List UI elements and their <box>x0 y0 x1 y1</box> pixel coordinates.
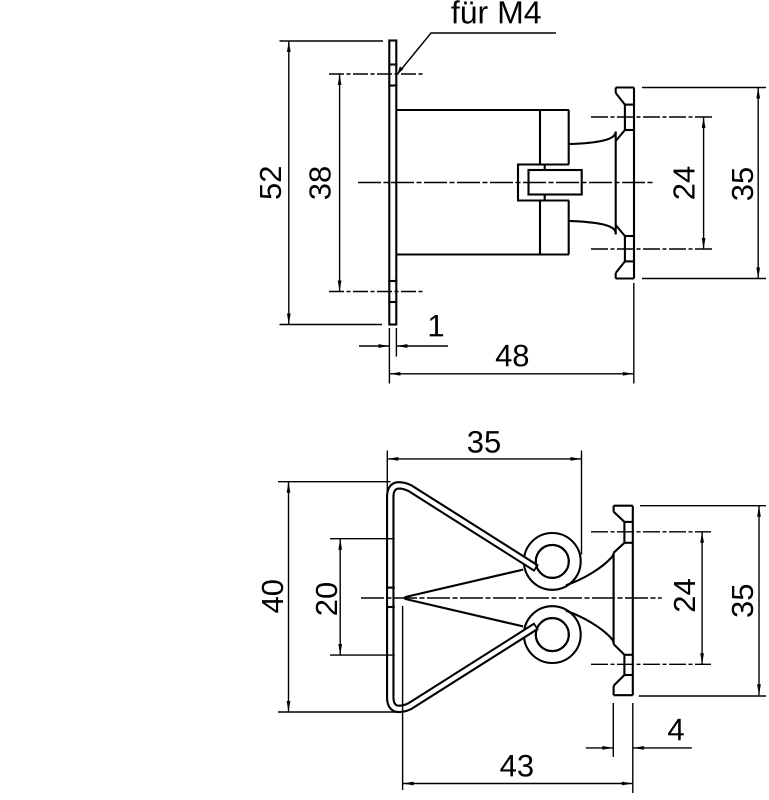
dim 52 extension bottom <box>280 324 383 326</box>
band ticks near apex <box>386 587 395 589</box>
dim 1 extension right <box>395 328 397 357</box>
svg-text:20: 20 <box>309 582 344 616</box>
flange face segments <box>613 506 615 512</box>
dim 35 extension top (top view) <box>642 87 766 89</box>
dim 1 left arrow line <box>359 345 389 347</box>
dim 4 right arrow line <box>633 747 692 749</box>
upper hole countersink <box>614 512 625 522</box>
svg-text:24: 24 <box>667 166 702 200</box>
svg-text:52: 52 <box>253 166 288 200</box>
exit curve upper <box>566 554 614 586</box>
flange hole axis upper (bottom view) <box>591 531 711 533</box>
dim 40 line <box>288 482 290 712</box>
plate hole axis upper <box>329 73 425 75</box>
clamp jaw verticals <box>544 165 546 171</box>
body right edge upper segment <box>539 110 541 165</box>
svg-text:1: 1 <box>427 308 444 343</box>
flange right edge <box>632 506 634 696</box>
leader fuer M4 <box>398 33 557 74</box>
dim 20 extension top <box>330 538 395 540</box>
mounting plate (side view, 1mm) <box>389 41 396 325</box>
dim 52 line <box>288 41 290 325</box>
dim 20 line <box>339 539 341 655</box>
dim 35 right line (bottom view) <box>758 506 760 696</box>
dim 1 extension left / 48 extension left <box>388 328 390 384</box>
flange top edge <box>616 86 634 88</box>
bottom view centerline <box>361 597 662 599</box>
dim 1 right arrow line <box>396 345 448 347</box>
dim 48 line <box>389 373 633 375</box>
svg-text:35: 35 <box>467 424 502 459</box>
spring clip band: thick black then white core <box>390 485 536 708</box>
svg-text:43: 43 <box>500 748 535 783</box>
svg-text:38: 38 <box>303 166 338 200</box>
dim 43 extension left <box>402 606 404 790</box>
dim 35 top extension right <box>581 451 583 555</box>
riser right edge lower <box>568 201 570 255</box>
plate hole tick lower <box>388 280 397 282</box>
plate hole axis lower <box>329 291 425 293</box>
riser right edge upper <box>568 110 570 165</box>
lower coil inner <box>536 618 569 651</box>
plate hole tick upper <box>388 63 397 65</box>
svg-text:24: 24 <box>667 578 702 612</box>
svg-text:4: 4 <box>667 712 684 747</box>
svg-text:48: 48 <box>495 338 530 373</box>
dim 35 right extension bottom (bottom view) <box>639 695 766 697</box>
flange top edge <box>614 505 633 507</box>
coil inner arcs redrawn <box>536 545 569 578</box>
clamp bracket <box>518 165 569 201</box>
dim 4 / 43 extension right <box>632 703 634 793</box>
dim 24 line (top view) <box>703 117 705 249</box>
dim 35 extension bottom (top view) <box>642 278 766 280</box>
svg-text:35: 35 <box>725 584 760 618</box>
svg-text:für M4: für M4 <box>451 0 542 30</box>
dim 40 extension bottom <box>278 711 398 713</box>
flange hole axis lower (top view) <box>591 248 712 250</box>
svg-text:40: 40 <box>255 579 290 613</box>
dim 52 extension top <box>280 40 384 42</box>
upper hole countersink <box>616 93 625 105</box>
body top edge <box>396 109 569 111</box>
upper coil inner <box>536 545 569 578</box>
dim 35 top extension left <box>386 451 388 498</box>
lower hole countersink <box>614 675 625 686</box>
dim 38 line <box>339 74 341 292</box>
dim 4 extension left <box>612 703 614 757</box>
flange bottom edge <box>614 694 633 696</box>
horn upper <box>569 132 616 145</box>
clamp slider rect <box>529 170 582 195</box>
flange right edge <box>633 88 635 279</box>
body bottom edge <box>396 253 569 255</box>
lower hole countersink <box>616 261 625 273</box>
dim 24 line (bottom view) <box>701 532 703 665</box>
apex V <box>405 570 524 627</box>
dim 48 extension right <box>633 283 635 384</box>
flange face segments <box>615 88 617 94</box>
exit curve lower <box>566 611 614 643</box>
svg-text:35: 35 <box>725 167 760 201</box>
dim 4 left arrow line <box>586 747 614 749</box>
flange bottom edge <box>616 277 634 279</box>
flange hole axis lower (bottom view) <box>591 663 711 665</box>
dim 40 extension top <box>278 481 391 483</box>
top view centerline <box>358 182 655 184</box>
dim 35 right extension top (bottom view) <box>640 505 766 507</box>
dim 35 line (top view) <box>757 88 759 279</box>
horn lower <box>569 221 616 234</box>
flange hole axis upper (top view) <box>591 116 712 118</box>
dim 20 extension bottom <box>330 654 395 656</box>
body right edge lower segment <box>539 201 541 255</box>
lower coil outer <box>524 606 581 663</box>
upper coil outer <box>524 533 581 590</box>
dim 43 line <box>403 783 633 785</box>
dim 35 top line <box>387 458 581 460</box>
